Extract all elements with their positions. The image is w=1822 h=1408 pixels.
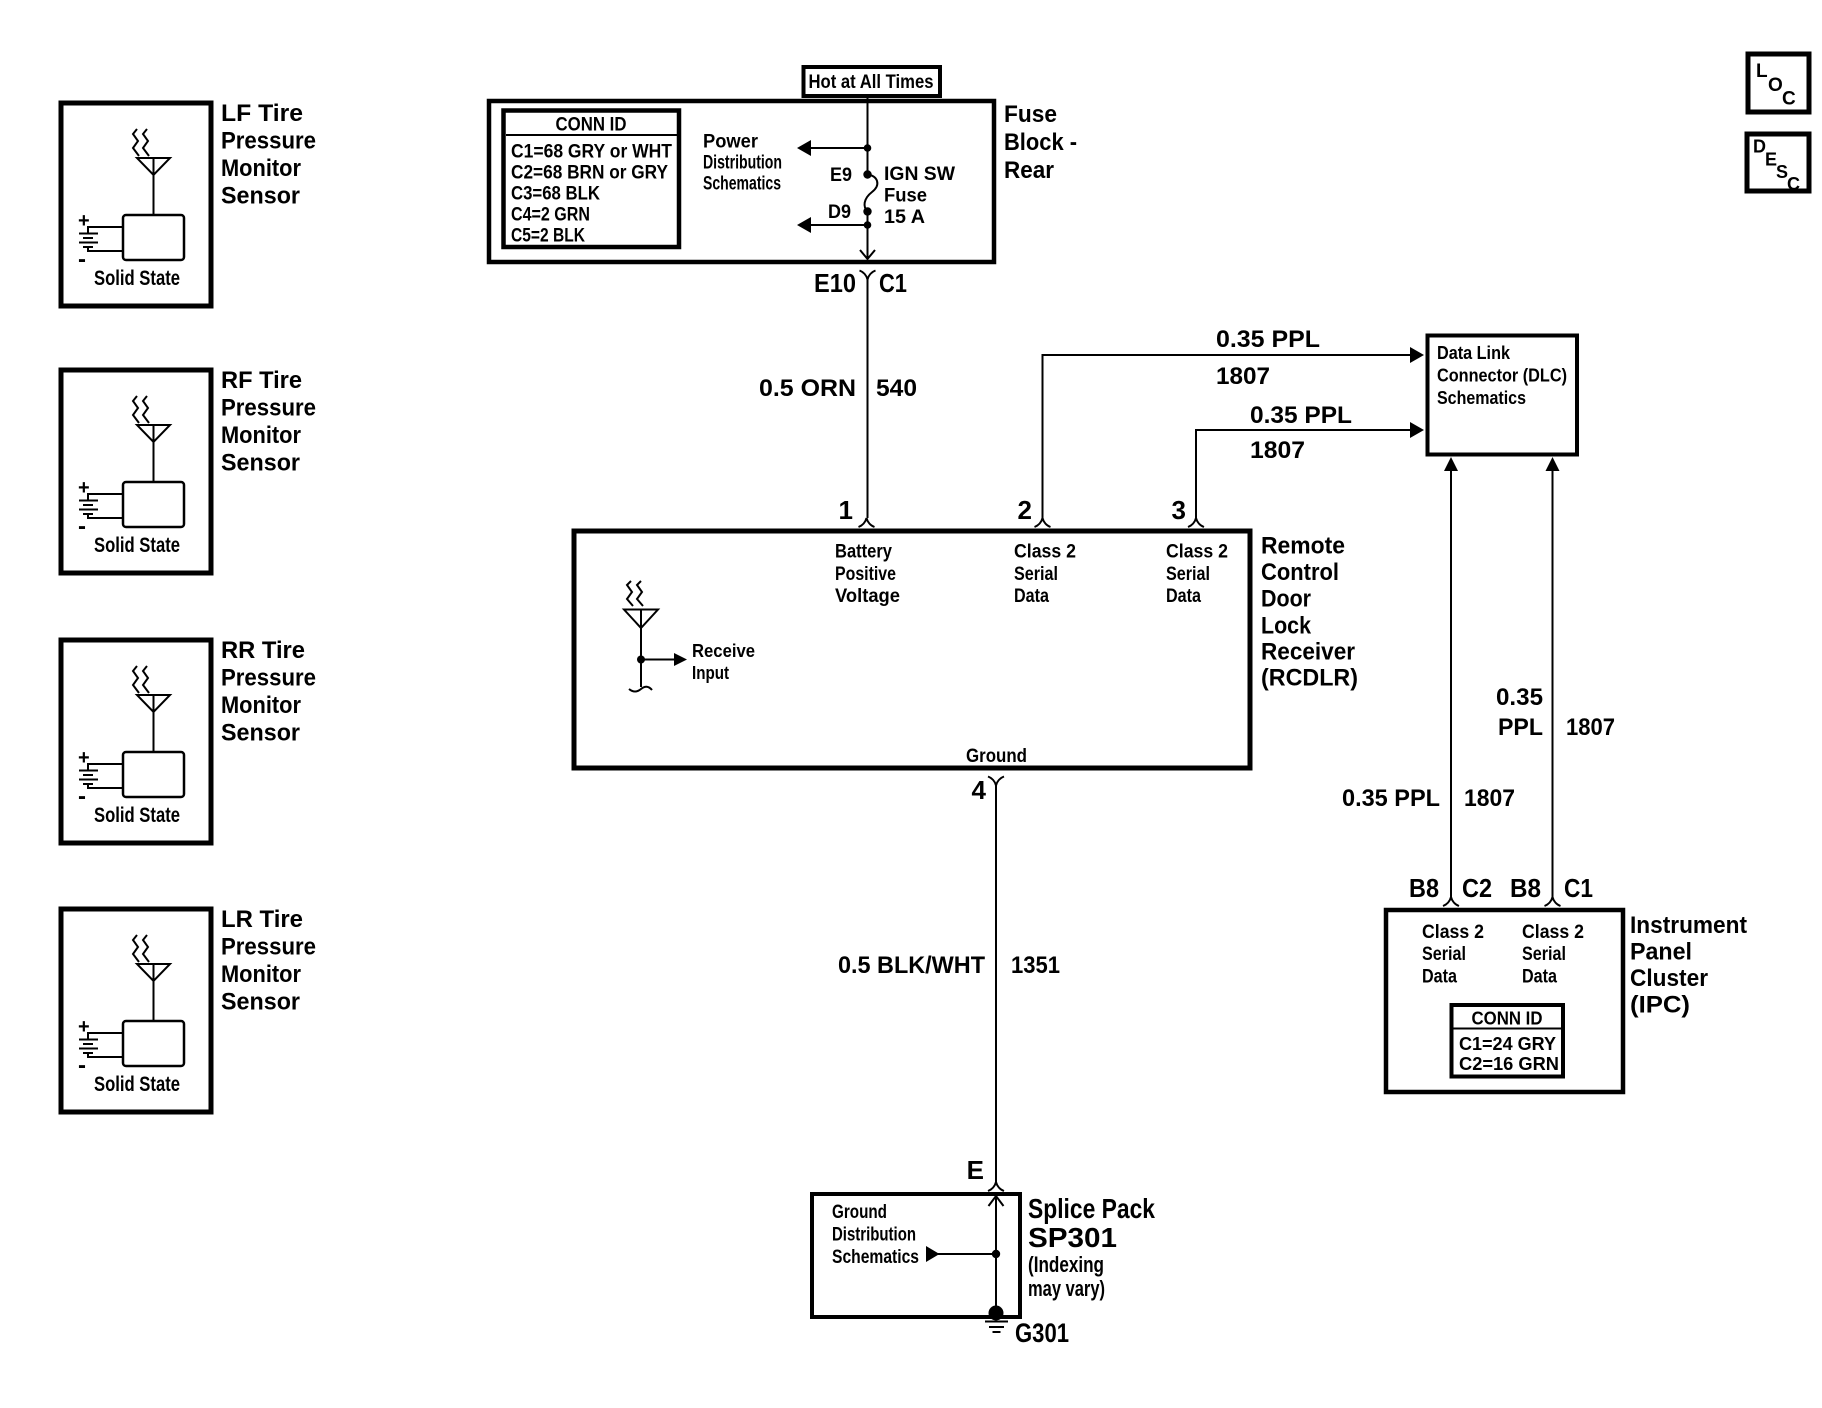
svg-text:Data: Data [1014,586,1049,607]
LF tire pressure monitor sensor box [61,103,211,306]
svg-text:Serial: Serial [1522,944,1566,965]
svg-text:Battery: Battery [835,542,892,563]
svg-text:3: 3 [1172,495,1186,525]
svg-text:Control: Control [1261,559,1339,586]
svg-text:Receive: Receive [692,641,755,661]
svg-text:Distribution: Distribution [832,1225,916,1246]
svg-text:Receiver: Receiver [1261,639,1355,666]
svg-text:C2=68 BRN or GRY: C2=68 BRN or GRY [511,163,668,184]
svg-text:(Indexing: (Indexing [1028,1252,1104,1277]
svg-text:0.5 BLK/WHT: 0.5 BLK/WHT [838,952,985,979]
pin 1 fork [859,518,875,527]
RF tire pressure monitor sensor box [61,370,211,573]
svg-text:E9: E9 [830,165,852,186]
svg-text:(RCDLR): (RCDLR) [1261,665,1358,692]
arrow to power distribution (lower) [867,212,869,226]
svg-text:C5=2 BLK: C5=2 BLK [511,226,585,247]
svg-text:CONN ID: CONN ID [1472,1008,1543,1029]
svg-text:Sensor: Sensor [221,183,300,210]
svg-text:Class 2: Class 2 [1522,922,1584,943]
svg-text:Serial: Serial [1166,564,1210,585]
svg-text:C1=24 GRY: C1=24 GRY [1459,1033,1557,1054]
svg-text:Sensor: Sensor [221,450,300,477]
svg-text:SP301: SP301 [1028,1222,1117,1253]
DLC schematics box [1428,336,1578,455]
svg-text:Monitor: Monitor [221,961,301,988]
svg-text:0.35 PPL: 0.35 PPL [1342,785,1440,812]
svg-text:Input: Input [692,663,729,683]
DESC reference box [1747,134,1809,191]
svg-text:Cluster: Cluster [1630,965,1708,992]
svg-text:0.35 PPL: 0.35 PPL [1250,402,1352,429]
wire from hot at all times into fuse block [867,96,869,175]
svg-text:RR Tire: RR Tire [221,637,305,664]
svg-text:C2: C2 [1462,873,1492,903]
wire 0.5 ORN 540 to RCDLR pin 1 [867,292,869,518]
svg-text:LR Tire: LR Tire [221,906,303,933]
svg-text:Monitor: Monitor [221,692,301,719]
CONN ID table (fuse block) [504,111,680,248]
splice pack SP301 box [812,1194,1020,1317]
svg-text:Fuse: Fuse [1004,101,1057,128]
pin 2 fork and wire to DLC [1035,518,1051,527]
arrow to power distribution (upper) [800,147,868,149]
svg-text:1807: 1807 [1216,363,1270,390]
svg-text:C4=2 GRN: C4=2 GRN [511,205,590,226]
svg-text:Fuse: Fuse [884,186,927,207]
svg-text:B8: B8 [1510,873,1541,903]
svg-text:Positive: Positive [835,564,896,585]
svg-text:Ground: Ground [966,746,1027,767]
svg-text:Sensor: Sensor [221,989,300,1016]
svg-text:1: 1 [839,495,853,525]
IPC box [1386,910,1623,1092]
splice pack internal wire with up arrow [995,1196,997,1313]
Hot at All Times label box [804,67,941,96]
fuse block rear box [489,101,994,262]
svg-text:540: 540 [876,375,917,402]
svg-text:Rear: Rear [1004,157,1054,184]
svg-text:Voltage: Voltage [835,586,900,607]
svg-text:O: O [1768,75,1783,96]
svg-text:G301: G301 [1015,1318,1069,1348]
svg-text:Hot at All Times: Hot at All Times [809,72,934,93]
svg-text:Monitor: Monitor [221,422,301,449]
svg-text:E10: E10 [814,268,856,298]
svg-text:Pressure: Pressure [221,128,316,155]
svg-text:Schematics: Schematics [832,1247,919,1268]
wire down to fuse box edge with open arrow [867,225,869,259]
svg-text:Data: Data [1166,586,1201,607]
svg-text:C: C [1787,174,1800,194]
svg-text:RF Tire: RF Tire [221,367,302,394]
svg-text:Distribution: Distribution [703,153,782,174]
svg-text:Lock: Lock [1261,613,1312,640]
svg-text:1807: 1807 [1464,785,1515,812]
ground G301 [989,1306,1004,1321]
svg-text:Panel: Panel [1630,939,1692,966]
RR tire pressure monitor sensor box [61,640,211,843]
svg-text:Class 2: Class 2 [1166,542,1228,563]
svg-text:0.35: 0.35 [1496,684,1543,711]
pin 3 fork and wire to DLC [1188,518,1204,527]
IPC CONN ID table [1452,1005,1564,1077]
LOC reference box [1748,54,1809,112]
svg-text:Data: Data [1522,967,1557,988]
svg-text:may vary): may vary) [1028,1276,1105,1301]
svg-text:Serial: Serial [1014,564,1058,585]
svg-text:Data: Data [1422,967,1457,988]
connector E10/C1 fork [860,271,876,280]
svg-text:(IPC): (IPC) [1630,992,1690,1019]
svg-text:0.35 PPL: 0.35 PPL [1216,326,1320,353]
svg-text:1807: 1807 [1250,437,1305,464]
svg-text:Pressure: Pressure [221,934,316,961]
svg-text:C1=68 GRY or WHT: C1=68 GRY or WHT [511,142,672,163]
svg-text:C: C [1782,89,1796,110]
pin 4 fork and ground wire [988,777,1004,786]
svg-text:LF Tire: LF Tire [221,100,303,127]
receive input arrow [641,659,674,661]
svg-text:Connector (DLC): Connector (DLC) [1437,365,1567,386]
svg-text:Ground: Ground [832,1202,887,1223]
svg-text:CONN ID: CONN ID [556,115,627,136]
svg-text:0.5 ORN: 0.5 ORN [759,375,856,402]
wire IPC C1/B8 to DLC (right) [1552,470,1554,897]
svg-text:L: L [1756,61,1768,82]
LR tire pressure monitor sensor box [61,909,211,1112]
fuse E9/D9 IGN SW 15A [863,170,871,178]
RCDLR box [574,531,1250,768]
svg-text:C1: C1 [879,268,907,298]
svg-text:Schematics: Schematics [703,174,781,195]
svg-text:1351: 1351 [1011,952,1060,979]
svg-text:Monitor: Monitor [221,155,301,182]
svg-text:Block -: Block - [1004,129,1077,156]
svg-text:15 A: 15 A [884,207,925,228]
svg-text:B8: B8 [1409,873,1439,903]
svg-text:Pressure: Pressure [221,395,316,422]
RCDLR internal antenna [627,581,633,606]
svg-text:C3=68 BLK: C3=68 BLK [511,184,600,205]
svg-text:Data Link: Data Link [1437,342,1511,363]
svg-text:Class 2: Class 2 [1014,542,1076,563]
svg-text:Power: Power [703,132,759,153]
svg-text:Remote: Remote [1261,533,1345,560]
svg-text:Class 2: Class 2 [1422,922,1484,943]
svg-text:Instrument: Instrument [1630,912,1747,939]
wire IPC C2/B8 to DLC (left) [1450,470,1452,897]
svg-text:2: 2 [1018,495,1032,525]
svg-text:Pressure: Pressure [221,665,316,692]
svg-text:Sensor: Sensor [221,720,300,747]
svg-text:Splice Pack: Splice Pack [1028,1193,1155,1224]
svg-text:4: 4 [972,775,987,805]
svg-text:Serial: Serial [1422,944,1466,965]
svg-text:PPL: PPL [1498,714,1543,741]
svg-text:Door: Door [1261,586,1311,613]
svg-text:D9: D9 [828,202,851,223]
svg-text:Schematics: Schematics [1437,387,1526,408]
svg-text:C2=16 GRN: C2=16 GRN [1459,1053,1559,1074]
svg-text:C1: C1 [1564,873,1593,903]
svg-text:IGN SW: IGN SW [884,164,955,185]
svg-text:1807: 1807 [1566,714,1615,741]
svg-text:E: E [967,1155,984,1185]
